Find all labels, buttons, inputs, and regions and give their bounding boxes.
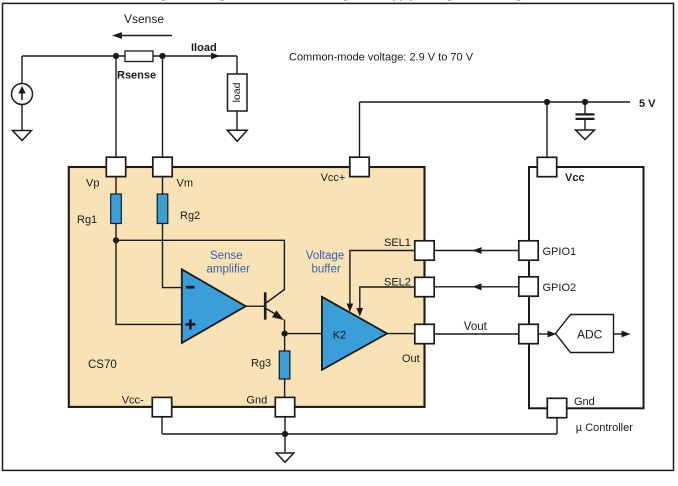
svg-text:SEL2: SEL2	[384, 277, 411, 289]
svg-text:K2: K2	[333, 330, 346, 342]
arrow: Iload direction (right)	[211, 53, 220, 60]
op-amp U1 (sense amplifier)	[182, 269, 246, 343]
pin Vcc (uC)	[537, 157, 556, 176]
wire: Vm pin to Rg2	[162, 176, 164, 194]
svg-text:Common-mode voltage: 2.9 V to: Common-mode voltage: 2.9 V to 70 V	[289, 52, 474, 64]
wire: junction to ground symbol	[284, 434, 286, 452]
minus sign	[186, 286, 195, 289]
wire: Rg2 to -input	[163, 224, 182, 288]
svg-text:Vcc: Vcc	[565, 172, 585, 184]
wire: Vm sense line	[162, 56, 164, 157]
pin Out	[415, 324, 434, 343]
node: 5V to decoupling cap	[582, 99, 588, 105]
pin Vcc-	[152, 397, 171, 416]
svg-text:µ Controller: µ Controller	[576, 422, 633, 434]
ground (below current source)	[13, 131, 32, 141]
plus sign	[185, 319, 195, 329]
arrow: GPIO1 toward CS70	[473, 247, 482, 254]
wire: op-amp output to transistor base	[246, 305, 264, 307]
svg-text:Vm: Vm	[177, 178, 194, 190]
svg-text:Vcc+: Vcc+	[321, 172, 346, 184]
svg-text:Vsense: Vsense	[124, 12, 164, 26]
svg-text:Rg3: Rg3	[251, 358, 271, 370]
wire: Out to uC Vout pin	[434, 333, 519, 335]
wire: node to Rg3	[284, 334, 286, 351]
svg-text:load: load	[231, 82, 243, 102]
resistor load	[228, 74, 248, 111]
wire: Vcc- to bottom rail	[161, 417, 163, 434]
transistor Q1	[265, 290, 284, 321]
5V supply rail	[360, 101, 631, 103]
wire: SEL2 to buffer	[360, 287, 415, 309]
wire: current source to ground	[21, 105, 23, 131]
wire: load branch down	[236, 56, 238, 74]
pin Vm	[153, 157, 172, 176]
ground (below load)	[227, 130, 247, 141]
wire: buffer output to Out pin	[387, 333, 415, 335]
svg-text:Voltage: Voltage	[306, 250, 344, 262]
wire: Vout pin to ADC	[538, 333, 549, 335]
svg-text:Vcc-: Vcc-	[122, 395, 144, 407]
svg-text:Vout: Vout	[464, 321, 488, 333]
wire: Vcc+ to 5V rail	[359, 102, 361, 157]
svg-text:Sense: Sense	[210, 250, 243, 262]
pin Vcc+	[350, 157, 369, 176]
buffer K2	[322, 297, 387, 370]
resistor Rg3	[279, 351, 290, 379]
svg-text:ADC: ADC	[577, 328, 603, 342]
wire: SEL2 to GPIO2	[434, 286, 519, 288]
wire: rail to capacitor	[584, 102, 586, 113]
pin Gnd (uC)	[547, 398, 566, 417]
IC CS70 body	[69, 167, 425, 407]
uController box	[529, 167, 644, 408]
svg-text:Iload: Iload	[191, 42, 217, 54]
resistor Rg2	[157, 194, 168, 224]
svg-text:CS70: CS70	[88, 359, 117, 371]
wire: Vp pin to Rg1	[115, 176, 117, 194]
svg-text:Out: Out	[402, 353, 420, 365]
wire: SEL1 to GPIO1	[434, 250, 519, 252]
wire: top main rail from current source to load	[22, 55, 237, 57]
arrow: ADC output	[614, 331, 631, 338]
svg-text:GPIO2: GPIO2	[543, 282, 577, 294]
svg-text:Gnd: Gnd	[246, 395, 267, 407]
node: feedback junction under Rg1	[113, 237, 119, 243]
wire: node to buffer input	[285, 333, 322, 335]
ground (below capacitor)	[576, 130, 595, 140]
svg-text:Rsense: Rsense	[117, 70, 156, 82]
resistor Rg1	[111, 194, 122, 224]
wire: uC Gnd pin to bottom rail	[556, 418, 558, 435]
wire: capacitor to ground	[584, 120, 586, 130]
svg-text:amplifier: amplifier	[207, 264, 251, 276]
pin GPIO1	[519, 241, 538, 260]
svg-text:buffer: buffer	[312, 264, 341, 276]
svg-text:Figure 47. High-side current s: Figure 47. High-side current sensing wit…	[150, 0, 523, 1]
wire: emitter to output node	[284, 320, 286, 334]
arrow: Vsense direction (left)	[112, 32, 172, 39]
ground (system ground)	[276, 453, 293, 462]
arrow: SEL1 into buffer	[347, 304, 354, 313]
wire: Rg1 to +input junction	[116, 224, 181, 325]
wire: Rg3 to Gnd pin	[284, 379, 286, 398]
svg-text:SEL1: SEL1	[384, 237, 411, 249]
pin Vp	[106, 157, 125, 176]
pin GPIO2	[519, 277, 538, 296]
arrow: into ADC	[548, 331, 557, 338]
wire: bottom ground rail	[162, 433, 557, 435]
pin Vout (uC)	[519, 324, 538, 343]
arrow: SEL2 into buffer	[357, 308, 364, 317]
pin SEL2	[415, 277, 434, 296]
svg-text:Vp: Vp	[86, 178, 99, 190]
wire: current source to top rail	[21, 56, 23, 84]
node: emitter/Rg3/buffer junction	[282, 331, 288, 337]
arrow: GPIO2 toward CS70	[473, 283, 482, 290]
pin Gnd (CS70)	[275, 397, 294, 416]
wire: feedback to transistor collector	[116, 240, 284, 290]
pin SEL1	[415, 241, 434, 260]
node: Rsense left junction	[113, 53, 119, 59]
current source I1	[12, 84, 33, 105]
wire: CS70 Gnd pin to bottom rail	[284, 417, 286, 434]
node: Rsense right junction	[159, 53, 165, 59]
capacitor C1	[576, 114, 595, 119]
svg-text:5 V: 5 V	[639, 98, 656, 110]
wire: 5V rail to uC Vcc pin	[546, 102, 548, 157]
svg-text:Gnd: Gnd	[574, 396, 595, 408]
resistor Rsense	[125, 51, 153, 62]
node: bottom rail ground junction	[282, 431, 288, 437]
wire: Vp sense line	[115, 56, 117, 157]
svg-text:Rg1: Rg1	[77, 214, 97, 226]
wire: SEL1 to buffer	[350, 251, 415, 305]
svg-text:Rg2: Rg2	[180, 210, 200, 222]
ADC block	[556, 315, 614, 353]
node: 5V to uC Vcc	[544, 99, 550, 105]
svg-text:GPIO1: GPIO1	[543, 246, 577, 258]
wire: load to ground	[236, 111, 238, 131]
